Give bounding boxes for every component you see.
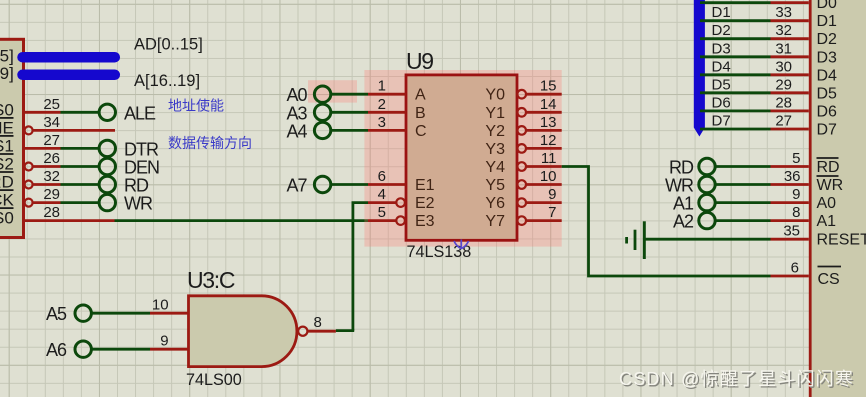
svg-text:D0: D0	[817, 0, 838, 12]
right IC pin name D2	[817, 31, 838, 48]
svg-text:A[16..19]: A[16..19]	[134, 72, 200, 90]
svg-text:A1: A1	[817, 213, 837, 230]
svg-text:U9: U9	[406, 48, 433, 74]
ground (rotated) on RESET	[627, 221, 645, 259]
wire D7 from bus	[700, 113, 771, 130]
svg-text:28: 28	[43, 204, 60, 221]
U9 pin name E2	[415, 195, 435, 212]
svg-text:A: A	[415, 87, 426, 104]
svg-text:Y5: Y5	[485, 177, 505, 194]
svg-text:30: 30	[775, 58, 792, 75]
gate U3:C reference label	[187, 267, 235, 293]
U9 pin name Y5	[485, 177, 505, 194]
svg-text:WR: WR	[665, 176, 694, 196]
svg-text:6: 6	[791, 260, 799, 277]
wire A0 to U9 pin 1	[331, 93, 368, 96]
left IC pin-name fragment RD	[0, 172, 14, 192]
svg-text:28: 28	[775, 94, 792, 111]
terminal RD	[99, 176, 149, 196]
annotation 地址使能	[168, 98, 224, 114]
svg-text:Y0: Y0	[485, 87, 505, 104]
left IC pin-name fragment HE	[0, 118, 14, 137]
wire D6 from bus	[700, 94, 771, 111]
svg-text:E3: E3	[415, 213, 435, 230]
svg-text:A3: A3	[286, 103, 307, 123]
right IC pin name D6	[817, 103, 838, 120]
bus AD[0..15]	[23, 52, 115, 63]
svg-text:4: 4	[378, 186, 386, 203]
svg-text:12: 12	[540, 132, 557, 149]
data bus (vertical, blue)	[694, 0, 705, 137]
wire D2 from bus	[700, 22, 771, 39]
svg-text:地址使能: 地址使能	[168, 98, 224, 114]
right IC pin D3 stub	[771, 40, 809, 57]
wire A2 to right IC	[715, 219, 770, 222]
U9 pin name A	[415, 87, 426, 104]
svg-text:A6: A6	[46, 340, 67, 360]
right IC pin D6 stub	[771, 94, 809, 111]
right IC pin 8 stub	[771, 204, 809, 221]
left IC pin 27 wire	[24, 132, 99, 149]
U9 pin 2 stub	[368, 96, 406, 113]
U9 pin name Y6	[485, 195, 505, 212]
wire U9 Y4 to CS	[562, 167, 771, 277]
A0 wire highlight	[308, 80, 357, 102]
U9 pin 1 stub	[368, 78, 406, 95]
right IC pin 36 stub	[771, 168, 809, 185]
right IC pin name D7	[817, 122, 838, 139]
svg-text:Y2: Y2	[485, 123, 505, 140]
right IC pin 9 stub	[771, 186, 809, 203]
svg-text:32: 32	[775, 22, 792, 39]
terminal ALE	[99, 103, 156, 123]
left IC pin-name fragment 5]	[0, 47, 14, 66]
svg-text:CK: CK	[0, 191, 14, 210]
svg-text:A2: A2	[673, 212, 694, 232]
svg-text:RD: RD	[669, 158, 694, 178]
svg-text:D7: D7	[817, 122, 838, 139]
svg-text:9: 9	[548, 186, 556, 203]
U9 value label 74LS138	[407, 243, 472, 261]
right IC pin D7 stub	[771, 113, 809, 130]
right IC pin D0 stub	[771, 1, 809, 4]
annotation 数据传输方向	[168, 135, 252, 151]
right IC pin name A0	[817, 195, 837, 212]
bus label A[16..19]	[134, 72, 200, 90]
U9 pin name Y0	[485, 87, 505, 104]
svg-text:D3: D3	[817, 49, 838, 66]
svg-text:9: 9	[160, 333, 168, 350]
svg-text:CS: CS	[818, 271, 840, 288]
U9 pin 10 stub (output Y5, inverted)	[517, 168, 561, 189]
wire A6 to U3:C pin 9	[92, 348, 151, 351]
terminal A6	[46, 340, 91, 360]
svg-text:A1: A1	[673, 194, 694, 214]
terminal A7	[286, 176, 330, 196]
terminal A1	[673, 194, 715, 214]
svg-text:D6: D6	[817, 103, 838, 120]
left IC pin-name fragment S2	[0, 154, 14, 174]
svg-text:34: 34	[43, 114, 60, 131]
svg-text:RD: RD	[124, 176, 149, 196]
right IC pin 5 stub	[771, 150, 809, 167]
svg-text:E2: E2	[415, 195, 435, 212]
wire RD to right IC	[715, 165, 770, 168]
U9 pin 14 stub (output Y1, inverted)	[517, 96, 561, 117]
svg-text:S0: S0	[0, 209, 14, 228]
wire D4 from bus	[700, 58, 771, 75]
right IC pin name WR	[817, 176, 844, 194]
svg-text:D7: D7	[712, 113, 731, 130]
left IC pin 28 stub	[24, 204, 115, 221]
svg-text:D6: D6	[712, 94, 731, 111]
svg-text:11: 11	[541, 150, 557, 167]
svg-text:2: 2	[378, 96, 386, 113]
left IC pin-name fragment S0	[0, 100, 14, 119]
svg-text:WR: WR	[124, 194, 153, 214]
U9 reference label	[406, 48, 433, 74]
U9 pin 13 stub (output Y2, inverted)	[517, 114, 561, 135]
terminal DEN	[99, 158, 159, 178]
svg-text:33: 33	[775, 4, 792, 21]
left IC pin-name fragment S1	[0, 136, 14, 156]
terminal WR	[99, 194, 153, 214]
svg-text:31: 31	[775, 40, 792, 57]
terminal A0	[286, 85, 330, 105]
svg-text:9]: 9]	[0, 64, 14, 83]
svg-text:1: 1	[378, 78, 386, 95]
svg-text:26: 26	[43, 150, 60, 167]
wire A5 to U3:C pin 10	[92, 312, 151, 315]
terminal A4	[286, 121, 330, 141]
wire ground to RESET	[644, 238, 770, 241]
U9 pin name Y3	[485, 141, 505, 158]
svg-text:S1: S1	[0, 136, 14, 155]
terminal DTR	[99, 139, 159, 159]
svg-text:B: B	[415, 105, 426, 122]
svg-text:D3: D3	[712, 40, 731, 57]
wire A4 to U9 pin 3	[331, 129, 368, 132]
terminal RD	[669, 158, 715, 178]
right IC pin name D4	[817, 67, 838, 84]
svg-text:S0: S0	[0, 100, 14, 119]
svg-text:10: 10	[540, 168, 557, 185]
svg-text:C: C	[415, 123, 427, 140]
svg-text:数据传输方向: 数据传输方向	[168, 135, 252, 151]
IC U1 8086 (partial, left edge) body	[0, 39, 24, 237]
svg-text:RESET: RESET	[817, 232, 866, 249]
left IC pin-name fragment S0	[0, 208, 14, 228]
svg-text:9: 9	[792, 186, 800, 203]
wire D0 from bus	[700, 1, 771, 4]
U9 pin name E1	[415, 177, 435, 194]
terminal WR	[665, 176, 715, 196]
left IC pin 32 wire	[25, 168, 99, 189]
svg-text:CSDN @惊醒了星斗闪闪寒: CSDN @惊醒了星斗闪闪寒	[619, 369, 854, 389]
wire U3:C pin 8 to vertical	[336, 329, 354, 332]
svg-text:27: 27	[43, 132, 60, 149]
svg-text:A7: A7	[286, 176, 307, 196]
U9 pin 5 stub (inverted)	[368, 204, 405, 225]
wire A3 to U9 pin 2	[331, 111, 368, 114]
right IC pin name RESET	[817, 232, 866, 249]
U9 pin name C	[415, 123, 427, 140]
right IC pin name A1	[817, 213, 837, 230]
svg-text:8: 8	[314, 314, 322, 331]
svg-text:WR: WR	[817, 177, 844, 194]
watermark	[619, 369, 856, 391]
svg-text:E1: E1	[415, 177, 435, 194]
wire A7 to U9 pin 6	[331, 183, 368, 186]
wire D3 from bus	[700, 40, 771, 57]
svg-text:27: 27	[775, 113, 792, 130]
wire pin28 to U9 E3	[115, 219, 369, 222]
svg-text:6: 6	[378, 168, 386, 185]
svg-text:U3:C: U3:C	[187, 267, 235, 293]
U9 pin 6 stub	[368, 168, 406, 185]
svg-text:5: 5	[792, 150, 800, 167]
right IC pin name CS	[818, 267, 842, 289]
terminal A5	[46, 304, 91, 324]
U9 pin name Y7	[485, 213, 505, 230]
right IC pin 6 stub	[771, 260, 809, 277]
U9 pin 9 stub (output Y6, inverted)	[517, 186, 561, 207]
right IC pin name D1	[817, 13, 838, 30]
left IC pin-name fragment CK	[0, 190, 14, 210]
svg-text:13: 13	[540, 114, 557, 131]
U9 pin name Y1	[485, 105, 505, 122]
svg-text:HE: HE	[0, 118, 14, 137]
terminal A2	[673, 212, 715, 232]
right IC pin name RD	[817, 158, 840, 176]
svg-text:35: 35	[783, 223, 800, 240]
U9 pin 7 stub (output Y7, inverted)	[517, 204, 561, 225]
U3:C pin 10 stub	[150, 297, 189, 314]
svg-text:D1: D1	[817, 13, 838, 30]
U9 pin 15 stub (output Y0, inverted)	[517, 78, 561, 99]
svg-text:32: 32	[43, 168, 60, 185]
svg-text:29: 29	[43, 186, 60, 203]
right IC pin D1 stub	[771, 4, 809, 21]
wire A1 to right IC	[715, 201, 770, 204]
svg-text:5]: 5]	[0, 47, 14, 66]
svg-text:74LS00: 74LS00	[186, 371, 242, 389]
svg-text:36: 36	[784, 168, 801, 185]
svg-text:DEN: DEN	[124, 158, 159, 178]
op U9 body 74LS138	[406, 75, 517, 240]
svg-text:5: 5	[378, 204, 386, 221]
svg-text:D1: D1	[712, 4, 731, 21]
right IC pin D4 stub	[771, 58, 809, 75]
wire D5 from bus	[700, 76, 771, 93]
svg-text:14: 14	[540, 96, 557, 113]
svg-text:7: 7	[548, 204, 556, 221]
left IC pin-name fragment 9]	[0, 64, 14, 83]
svg-text:A0: A0	[817, 195, 837, 212]
right IC pin name D5	[817, 85, 838, 102]
svg-text:3: 3	[378, 114, 386, 131]
svg-text:AD[0..15]: AD[0..15]	[134, 35, 203, 53]
U9 pin 11 stub (output Y4, inverted)	[517, 150, 561, 171]
wire U3:C output to U9 E2	[353, 203, 368, 331]
left IC pin 26 wire	[25, 150, 99, 171]
svg-text:15: 15	[540, 78, 557, 95]
svg-text:29: 29	[775, 76, 792, 93]
svg-text:D4: D4	[712, 58, 731, 75]
U9 selection highlight	[364, 70, 561, 247]
svg-text:DTR: DTR	[124, 139, 159, 159]
svg-text:D5: D5	[712, 76, 731, 93]
U9 pin name B	[415, 105, 426, 122]
right IC pin 35 stub	[771, 223, 809, 240]
right IC pin name D3	[817, 49, 838, 66]
right IC pin name D0	[817, 0, 838, 12]
svg-text:25: 25	[43, 96, 60, 113]
svg-text:Y7: Y7	[485, 213, 505, 230]
U9 pin name Y2	[485, 123, 505, 140]
U9 hidden-pin marker (purple)	[454, 240, 469, 250]
svg-text:8: 8	[792, 204, 800, 221]
U9 pin name E3	[415, 213, 435, 230]
right IC pin D2 stub	[771, 22, 809, 39]
svg-text:D4: D4	[817, 67, 838, 84]
U3:C pin 9 stub	[150, 333, 189, 350]
U9 pin 4 stub (inverted)	[368, 186, 405, 207]
wire WR to right IC	[715, 183, 770, 186]
U9 pin 12 stub (output Y3, inverted)	[517, 132, 561, 153]
right IC pin D5 stub	[771, 76, 809, 93]
svg-text:RD: RD	[817, 159, 840, 176]
U9 pin name Y4	[485, 159, 505, 176]
U3:C pin 8 stub (output)	[307, 314, 336, 331]
svg-text:D5: D5	[817, 85, 838, 102]
svg-text:Y3: Y3	[485, 141, 505, 158]
svg-text:A0: A0	[286, 85, 307, 105]
svg-text:D2: D2	[817, 31, 838, 48]
bus label AD[0..15]	[134, 35, 203, 53]
svg-text:10: 10	[152, 297, 169, 314]
U3:C value label 74LS00	[186, 371, 242, 389]
U9 pin 3 stub	[368, 114, 406, 131]
svg-text:Y4: Y4	[485, 159, 505, 176]
svg-text:Y6: Y6	[485, 195, 505, 212]
bus A[16..19]	[23, 70, 115, 81]
svg-text:D2: D2	[712, 22, 731, 39]
terminal A3	[286, 103, 330, 123]
left IC pin 29 wire	[25, 186, 99, 207]
svg-text:S2: S2	[0, 155, 14, 174]
gate U3:C body 74LS00 NAND	[189, 296, 308, 367]
svg-text:A4: A4	[286, 121, 307, 141]
svg-text:A5: A5	[46, 304, 67, 324]
svg-text:RD: RD	[0, 173, 14, 192]
svg-text:ALE: ALE	[124, 103, 156, 123]
left IC pin 34 wire	[25, 114, 115, 134]
IC U2 8255 (partial, right edge) body	[810, 0, 866, 397]
svg-text:Y1: Y1	[485, 105, 505, 122]
wire D1 from bus	[700, 4, 771, 21]
left IC pin 25 wire	[24, 96, 99, 113]
